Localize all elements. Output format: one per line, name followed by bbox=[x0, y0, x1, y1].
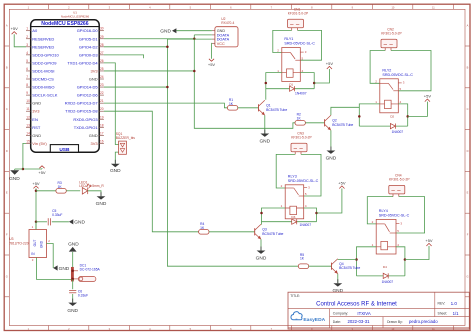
svg-text:A: A bbox=[467, 24, 469, 28]
svg-text:25: 25 bbox=[100, 67, 104, 71]
svg-text:7812/TO-220: 7812/TO-220 bbox=[9, 242, 29, 246]
svg-text:D3: D3 bbox=[291, 215, 295, 219]
svg-text:8: 8 bbox=[26, 83, 28, 87]
svg-text:19: 19 bbox=[100, 115, 104, 119]
svg-text:C: C bbox=[6, 107, 8, 111]
svg-text:A: A bbox=[6, 24, 8, 28]
svg-text:3V3: 3V3 bbox=[90, 141, 98, 146]
svg-text:NodeMCU_ESP8266: NodeMCU_ESP8266 bbox=[61, 14, 90, 18]
svg-text:24: 24 bbox=[100, 75, 104, 79]
svg-text:Sheet:: Sheet: bbox=[438, 312, 448, 316]
svg-text:26: 26 bbox=[100, 59, 104, 63]
svg-text:6: 6 bbox=[26, 67, 28, 71]
svg-text:D2: D2 bbox=[390, 115, 394, 119]
svg-text:SRD-05VDC-SL-C: SRD-05VDC-SL-C bbox=[288, 179, 319, 183]
svg-text:7: 7 bbox=[26, 75, 28, 79]
svg-text:20: 20 bbox=[100, 107, 104, 111]
svg-text:+5V: +5V bbox=[208, 62, 216, 67]
svg-text:1.0: 1.0 bbox=[451, 301, 458, 306]
svg-text:U3: U3 bbox=[9, 237, 13, 241]
svg-text:E: E bbox=[6, 191, 8, 195]
svg-text:D1: D1 bbox=[289, 82, 293, 86]
svg-text:Q2: Q2 bbox=[332, 119, 337, 123]
svg-text:18: 18 bbox=[100, 123, 104, 127]
svg-text:RST: RST bbox=[32, 125, 41, 130]
svg-text:14: 14 bbox=[26, 131, 30, 135]
svg-text:Control Accesos RF & Internet: Control Accesos RF & Internet bbox=[316, 302, 397, 308]
svg-text:SQ1: SQ1 bbox=[116, 132, 123, 136]
svg-text:0.33uF: 0.33uF bbox=[52, 213, 62, 217]
svg-text:11: 11 bbox=[26, 107, 30, 111]
svg-text:GND: GND bbox=[9, 176, 20, 182]
svg-text:GND: GND bbox=[160, 28, 171, 34]
svg-text:Company:: Company: bbox=[333, 312, 349, 316]
svg-text:RX470-4: RX470-4 bbox=[221, 21, 234, 25]
svg-text:28: 28 bbox=[100, 43, 104, 47]
svg-text:SDD1-MOSI: SDD1-MOSI bbox=[32, 68, 54, 73]
svg-text:GND: GND bbox=[32, 133, 41, 138]
svg-text:16: 16 bbox=[100, 139, 104, 143]
svg-text:30: 30 bbox=[100, 27, 104, 31]
svg-text:SRD-05VDC-SL-C: SRD-05VDC-SL-C bbox=[382, 73, 413, 77]
svg-text:B: B bbox=[467, 65, 469, 69]
svg-text:C6: C6 bbox=[78, 290, 82, 294]
svg-text:GND: GND bbox=[332, 288, 343, 294]
svg-text:3V3: 3V3 bbox=[90, 68, 98, 73]
svg-text:REV:: REV: bbox=[438, 302, 446, 306]
svg-text:BUZZER_bis: BUZZER_bis bbox=[116, 136, 136, 140]
svg-text:GND: GND bbox=[110, 168, 121, 174]
svg-text:GND: GND bbox=[74, 220, 85, 226]
svg-text:E: E bbox=[467, 191, 469, 195]
svg-text:BC547B Tube: BC547B Tube bbox=[266, 108, 287, 112]
svg-text:CN2: CN2 bbox=[387, 28, 394, 32]
svg-text:GPIO0-D3: GPIO0-D3 bbox=[79, 52, 98, 57]
svg-text:3V3: 3V3 bbox=[32, 109, 40, 114]
svg-text:G: G bbox=[6, 274, 8, 278]
svg-text:1N4007: 1N4007 bbox=[295, 92, 307, 96]
svg-text:SRD-05VDC-SL-C: SRD-05VDC-SL-C bbox=[284, 42, 315, 46]
svg-text:pedro.preciado: pedro.preciado bbox=[409, 319, 438, 324]
svg-text:Drawn By:: Drawn By: bbox=[387, 320, 403, 324]
svg-text:CN3: CN3 bbox=[297, 131, 304, 135]
svg-text:ITXIVA: ITXIVA bbox=[357, 311, 370, 316]
svg-text:A0: A0 bbox=[32, 28, 38, 33]
svg-text:CN4: CN4 bbox=[395, 174, 402, 178]
svg-text:RLY4: RLY4 bbox=[379, 209, 388, 213]
svg-text:GPIO4-D2: GPIO4-D2 bbox=[79, 44, 98, 49]
svg-text:RLY1: RLY1 bbox=[284, 37, 293, 41]
svg-text:GND: GND bbox=[256, 256, 267, 262]
svg-text:NodeMCU ESP8266: NodeMCU ESP8266 bbox=[41, 21, 88, 27]
svg-text:SDCLK-SCLK: SDCLK-SCLK bbox=[32, 93, 57, 98]
svg-text:SDD3-GPIO10: SDD3-GPIO10 bbox=[32, 52, 59, 57]
svg-text:27: 27 bbox=[100, 51, 104, 55]
svg-text:22: 22 bbox=[100, 91, 104, 95]
svg-text:BC547B Tube: BC547B Tube bbox=[332, 123, 353, 127]
svg-text:DOATA: DOATA bbox=[217, 38, 230, 42]
svg-text:GPIO12-D6: GPIO12-D6 bbox=[77, 93, 99, 98]
svg-text:1/1: 1/1 bbox=[453, 311, 460, 316]
svg-text:GPIO14-D5: GPIO14-D5 bbox=[77, 85, 99, 90]
svg-text:SRD-05VDC-SL-C: SRD-05VDC-SL-C bbox=[379, 213, 410, 217]
svg-text:SDD0-MISO: SDD0-MISO bbox=[32, 85, 54, 90]
svg-text:D4: D4 bbox=[383, 265, 387, 269]
svg-text:+5V: +5V bbox=[326, 61, 334, 66]
svg-text:D: D bbox=[6, 149, 8, 153]
svg-text:1: 1 bbox=[26, 27, 28, 31]
svg-text:Q3: Q3 bbox=[262, 228, 267, 232]
svg-text:Date:: Date: bbox=[333, 320, 341, 324]
svg-text:13: 13 bbox=[26, 123, 30, 127]
svg-text:GPIO16-D0: GPIO16-D0 bbox=[77, 28, 99, 33]
svg-text:SDD2-GPIO9: SDD2-GPIO9 bbox=[32, 60, 57, 65]
svg-text:KF301-5.0-2P: KF301-5.0-2P bbox=[291, 135, 312, 139]
svg-text:+5V: +5V bbox=[32, 181, 40, 186]
svg-text:DOATA: DOATA bbox=[217, 33, 230, 37]
svg-text:Q1: Q1 bbox=[266, 104, 271, 108]
svg-text:17: 17 bbox=[100, 131, 104, 135]
svg-text:1N4007: 1N4007 bbox=[382, 280, 394, 284]
svg-text:GND: GND bbox=[96, 201, 107, 207]
svg-text:RXD0-GPIO3: RXD0-GPIO3 bbox=[73, 117, 98, 122]
svg-text:BC547B Tube: BC547B Tube bbox=[339, 266, 360, 270]
svg-text:KF301-5.0-2P: KF301-5.0-2P bbox=[389, 178, 410, 182]
svg-text:GND: GND bbox=[67, 308, 78, 314]
svg-text:12: 12 bbox=[26, 115, 30, 119]
svg-text:GND: GND bbox=[40, 240, 44, 248]
svg-text:Q4: Q4 bbox=[339, 262, 344, 266]
svg-text:+5V: +5V bbox=[338, 181, 346, 186]
svg-text:GND: GND bbox=[89, 77, 98, 82]
svg-text:TXD2-GPIO15-D8: TXD2-GPIO15-D8 bbox=[65, 109, 98, 114]
svg-text:RLY3: RLY3 bbox=[288, 174, 297, 178]
svg-text:GPIO5-D1: GPIO5-D1 bbox=[79, 36, 98, 41]
svg-text:GND: GND bbox=[68, 241, 79, 247]
svg-text:BC547B Tube: BC547B Tube bbox=[262, 232, 283, 236]
svg-text:GND: GND bbox=[59, 266, 70, 272]
svg-text:SDCMD-CS: SDCMD-CS bbox=[32, 77, 54, 82]
svg-text:10: 10 bbox=[26, 99, 30, 103]
svg-text:B: B bbox=[6, 65, 8, 69]
svg-text:RXD2-GPIO13-D7: RXD2-GPIO13-D7 bbox=[65, 101, 99, 106]
svg-text:21: 21 bbox=[100, 99, 104, 103]
svg-text:TXD1-GPIO2-D4: TXD1-GPIO2-D4 bbox=[67, 60, 98, 65]
svg-text:KF301-5.0-2P: KF301-5.0-2P bbox=[288, 11, 309, 15]
svg-text:CN1: CN1 bbox=[294, 7, 301, 11]
svg-text:2: 2 bbox=[26, 35, 28, 39]
svg-text:3: 3 bbox=[26, 43, 28, 47]
svg-text:TITLE:: TITLE: bbox=[290, 294, 300, 298]
svg-text:RESERVED: RESERVED bbox=[32, 44, 54, 49]
svg-text:23: 23 bbox=[100, 83, 104, 87]
svg-text:GND: GND bbox=[89, 133, 98, 138]
svg-text:VCC: VCC bbox=[217, 42, 225, 46]
svg-text:GND: GND bbox=[326, 156, 337, 162]
svg-text:G: G bbox=[466, 274, 468, 278]
svg-text:2022-03-31: 2022-03-31 bbox=[348, 319, 371, 324]
svg-text:TXD0-GPIO1: TXD0-GPIO1 bbox=[74, 125, 99, 130]
svg-text:D: D bbox=[467, 149, 469, 153]
svg-text:OUT: OUT bbox=[33, 240, 37, 247]
svg-text:29: 29 bbox=[100, 35, 104, 39]
svg-text:Vin (5V): Vin (5V) bbox=[32, 141, 47, 146]
svg-text:4: 4 bbox=[26, 51, 28, 55]
svg-text:0.33uF: 0.33uF bbox=[78, 294, 88, 298]
svg-text:1N4007: 1N4007 bbox=[392, 130, 404, 134]
svg-text:USB: USB bbox=[59, 147, 70, 153]
svg-text:DC1: DC1 bbox=[80, 264, 87, 268]
svg-text:15: 15 bbox=[26, 139, 30, 143]
svg-text:DC-072-165A: DC-072-165A bbox=[80, 268, 101, 272]
svg-text:+5V: +5V bbox=[425, 238, 433, 243]
svg-text:+5V: +5V bbox=[424, 94, 432, 99]
svg-text:U2: U2 bbox=[221, 17, 225, 21]
svg-text:RLY2: RLY2 bbox=[382, 68, 391, 72]
svg-text:KF301-5.0-2P: KF301-5.0-2P bbox=[381, 32, 402, 36]
svg-text:+5V: +5V bbox=[38, 170, 46, 175]
svg-text:≡: ≡ bbox=[295, 317, 297, 321]
svg-text:1N4007: 1N4007 bbox=[300, 223, 312, 227]
svg-text:EasyEDA: EasyEDA bbox=[303, 317, 325, 323]
svg-text:C: C bbox=[467, 107, 469, 111]
svg-text:GND: GND bbox=[217, 29, 226, 33]
svg-text:9: 9 bbox=[26, 91, 28, 95]
svg-text:U1: U1 bbox=[73, 10, 77, 14]
svg-text:C5: C5 bbox=[52, 209, 56, 213]
svg-text:+5V: +5V bbox=[11, 26, 19, 31]
svg-text:EN: EN bbox=[32, 117, 38, 122]
svg-text:GND: GND bbox=[32, 101, 41, 106]
svg-text:5: 5 bbox=[26, 59, 28, 63]
svg-text:GND: GND bbox=[259, 139, 270, 145]
svg-text:RESERVED: RESERVED bbox=[32, 36, 54, 41]
